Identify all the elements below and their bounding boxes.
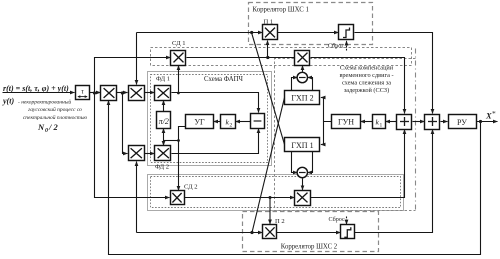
svg-text:X: X: [485, 111, 492, 121]
svg-text:Коррелятор ШХС 1: Коррелятор ШХС 1: [253, 7, 309, 14]
svg-text:y(t): y(t): [2, 97, 14, 106]
svg-text:схема слежения за: схема слежения за: [342, 80, 391, 87]
svg-text:задержкой (ССЗ): задержкой (ССЗ): [344, 87, 389, 94]
svg-text:/ 2: / 2: [48, 122, 58, 132]
svg-text:Коррелятор ШХС 2: Коррелятор ШХС 2: [281, 244, 338, 251]
svg-text:РУ: РУ: [457, 118, 467, 127]
svg-text:ФД 2: ФД 2: [155, 163, 169, 170]
svg-text:СД 2: СД 2: [184, 183, 198, 190]
svg-text:спектральной плотностью: спектральной плотностью: [23, 114, 87, 121]
svg-text:П 1: П 1: [264, 19, 274, 26]
svg-text:ГУН: ГУН: [338, 117, 354, 126]
svg-text:ГХП 1: ГХП 1: [291, 141, 313, 150]
svg-text:СД 1: СД 1: [172, 40, 186, 47]
svg-text:Схема ФАПЧ: Схема ФАПЧ: [204, 76, 244, 83]
svg-text:π/2: π/2: [159, 117, 169, 126]
svg-text:временного сдвига -: временного сдвига -: [339, 72, 393, 79]
svg-text:r(t) = s(t, τ, φ) + y(t): r(t) = s(t, τ, φ) + y(t): [3, 84, 69, 93]
svg-text:УГ: УГ: [194, 117, 205, 126]
svg-text:*: *: [492, 109, 496, 118]
svg-text:- некорректированный: - некорректированный: [18, 99, 71, 106]
svg-text:Схема компенсации: Схема компенсации: [340, 65, 394, 72]
svg-text:П 2: П 2: [275, 218, 285, 225]
svg-text:ГХП 2: ГХП 2: [291, 94, 313, 103]
svg-text:τ: τ: [81, 87, 84, 96]
svg-text:0: 0: [45, 128, 48, 134]
svg-text:N: N: [37, 122, 45, 132]
svg-text:Сброс: Сброс: [328, 43, 344, 50]
svg-text:Сброс: Сброс: [329, 216, 345, 223]
svg-text:2: 2: [230, 123, 233, 129]
svg-text:ФД 1: ФД 1: [156, 76, 170, 83]
svg-text:1: 1: [380, 123, 383, 129]
svg-text:гауссовский процесс со: гауссовский процесс со: [28, 106, 82, 113]
